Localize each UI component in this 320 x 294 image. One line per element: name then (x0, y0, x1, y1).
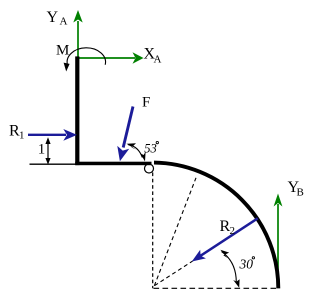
53 deg angle arc with arrowheads (127, 143, 146, 161)
label R2 (220, 218, 236, 237)
svg-text:Y: Y (47, 9, 59, 26)
svg-text:2: 2 (230, 225, 236, 237)
dashed radial at 70 deg (154, 178, 196, 286)
force F arrow (117, 107, 133, 162)
force R2 arrow (192, 218, 258, 261)
svg-text:1: 1 (19, 130, 25, 142)
svg-text:B: B (297, 187, 304, 199)
svg-text:F: F (142, 95, 150, 111)
axis Y_A (73, 10, 82, 58)
label Y_B (288, 179, 304, 199)
svg-text:1: 1 (38, 142, 46, 158)
dashed bottom radius (154, 287, 278, 289)
label R1 (9, 123, 25, 142)
30 deg angle arc with arrowheads (220, 250, 239, 288)
dashed vertical radius (152, 173, 154, 289)
svg-text:53: 53 (144, 141, 157, 155)
dimension arrow 1 (45, 137, 50, 164)
svg-text:M: M (56, 42, 69, 58)
dashed radial at 30 deg (R2 line to center) (155, 261, 193, 286)
member vertical (75, 56, 79, 165)
svg-text:A: A (154, 54, 162, 66)
label Y_A (47, 9, 68, 28)
moment M arc (64, 48, 106, 72)
thin baseline (30, 163, 77, 165)
svg-text:30: 30 (239, 256, 254, 271)
label 30 deg (239, 256, 255, 271)
label 53 deg (144, 141, 158, 155)
member horizontal (75, 162, 151, 166)
quarter-circle arc member (154, 163, 278, 289)
axis Y_B (274, 194, 283, 282)
label X_A (144, 46, 162, 66)
svg-text:A: A (60, 16, 68, 28)
axis X_A (79, 52, 144, 64)
reaction R1 arrow (28, 129, 77, 141)
pin circle at hinge (145, 164, 154, 173)
